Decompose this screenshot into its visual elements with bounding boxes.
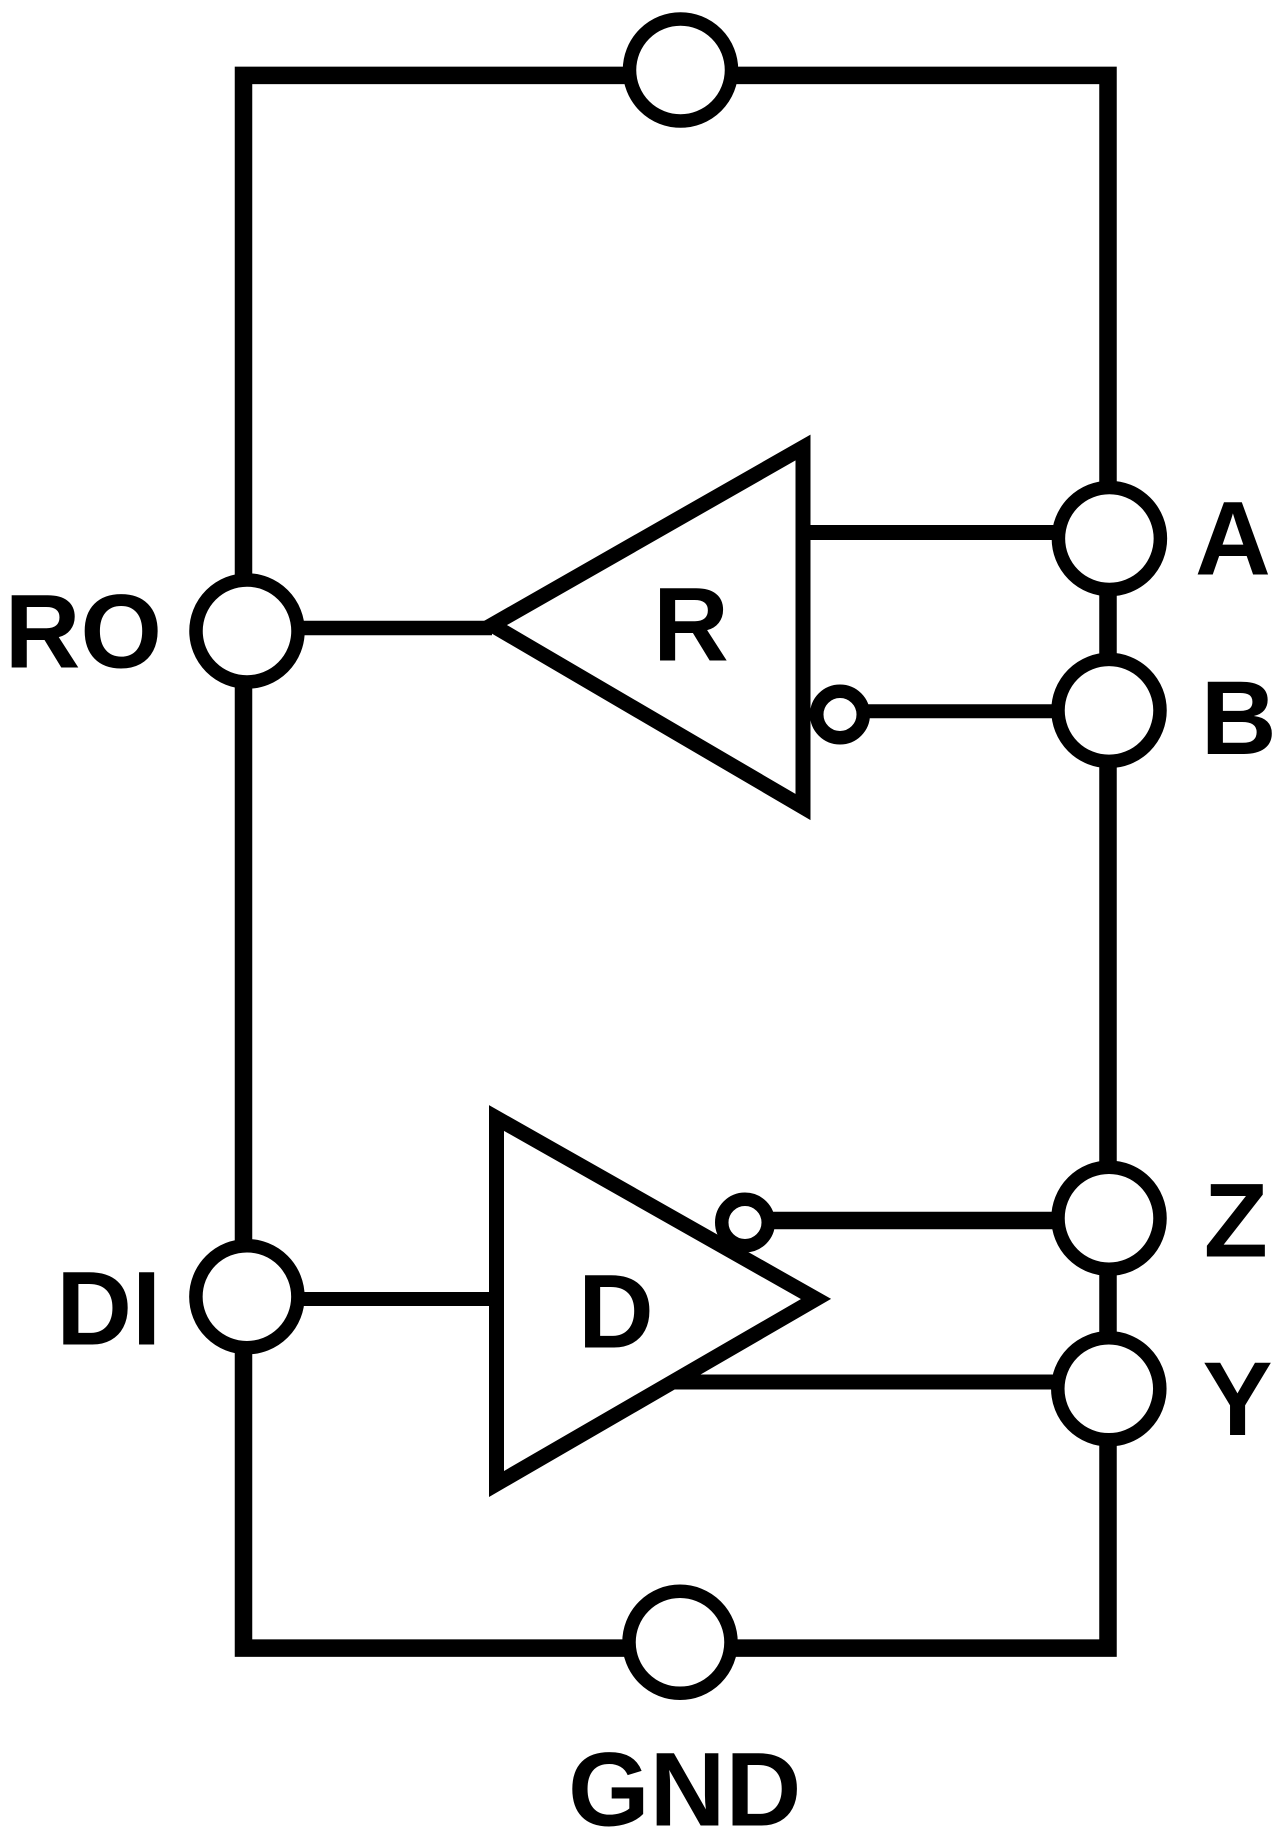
svg-text:D: D [578, 1254, 654, 1371]
svg-text:B: B [1201, 660, 1277, 777]
svg-text:A: A [1195, 481, 1271, 598]
svg-text:Y: Y [1203, 1341, 1273, 1458]
svg-text:GND: GND [568, 1732, 801, 1834]
svg-text:DI: DI [56, 1251, 161, 1368]
svg-text:RO: RO [5, 574, 163, 691]
svg-text:Z: Z [1204, 1163, 1268, 1280]
svg-text:R: R [653, 567, 729, 684]
